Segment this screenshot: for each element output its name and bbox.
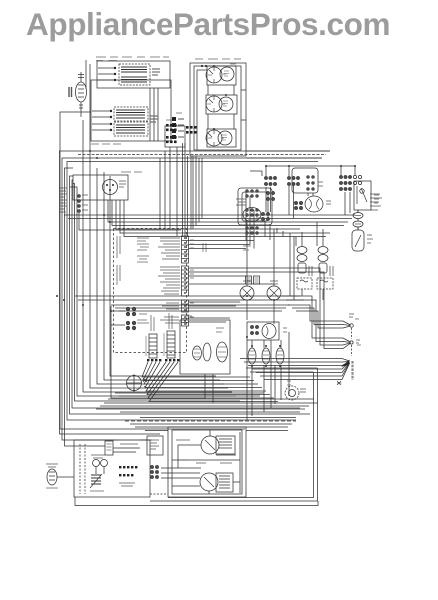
- label left of oval: [69, 87, 72, 97]
- assorted junction dots: [56, 65, 356, 392]
- surface switch box outer: [190, 63, 246, 156]
- dashed element box 2: [114, 107, 148, 121]
- wires top right linking: [246, 151, 355, 176]
- plug header P3: [146, 315, 157, 358]
- oval I: [353, 213, 363, 219]
- wires from terminal strip to right: [189, 191, 301, 322]
- bottom-left inner components: [90, 441, 140, 491]
- bottom switch pair 1: [201, 436, 235, 454]
- door motor box: [73, 175, 128, 200]
- pin rows under plugs: [147, 359, 179, 361]
- surface switch SW2: [206, 95, 237, 114]
- latch connector pair: [250, 325, 258, 334]
- bottom-left oval component: [46, 464, 74, 488]
- RANGE label vertical: [351, 361, 353, 380]
- label P-display vertical: [203, 243, 206, 252]
- cooling fan motor circle-cross: [127, 376, 148, 391]
- conv fan circle: [285, 386, 306, 400]
- dashed element box 3: [114, 122, 148, 136]
- bottom wires: [161, 430, 240, 494]
- header logo text: [26, 6, 390, 43]
- bottom bus horizontals: [75, 393, 318, 506]
- heater bars 1: [121, 67, 147, 72]
- bigger oval comp 3: [217, 342, 228, 362]
- wire left bus bundle with corner tops: [60, 112, 311, 446]
- wire fan 2: [282, 268, 360, 349]
- dashed link line 2: [351, 345, 353, 356]
- label right: [150, 116, 158, 122]
- bake element group box U2: [91, 80, 171, 141]
- fanned wires from plugs to bus: [142, 362, 278, 402]
- connector grid F: [339, 175, 351, 190]
- plug header P4: [164, 313, 175, 358]
- connector column below door motor: [77, 194, 181, 230]
- wire horizontal mid bundle crossing page with corner drops: [64, 200, 355, 237]
- wire-name labels left of strips: [158, 238, 180, 323]
- relay nested boxes: [238, 188, 272, 225]
- wire bundle lower mid: [75, 296, 304, 311]
- wire fan 1 to node N: [288, 305, 354, 328]
- control board dashed box: [114, 229, 187, 353]
- surface switch SW1: [206, 66, 236, 85]
- connector grid B: [287, 176, 299, 185]
- left-mid connector clusters x125-140 y306-333 wires: [111, 311, 125, 325]
- asterisk mark: [337, 381, 342, 385]
- rounded relay box C: [292, 168, 323, 193]
- top-right wiring: connector grid A: [264, 176, 276, 185]
- sensor stack A: [297, 247, 312, 290]
- box around left-middle: [111, 306, 205, 398]
- small connector text block on left bus: [60, 188, 67, 212]
- wire vert top-left: [85, 60, 87, 89]
- terminal strip column TB1: [182, 236, 189, 263]
- connector grid A2 below connA: [266, 191, 274, 200]
- dashed link line: [351, 328, 353, 339]
- hatched oval comp row (thermostats): [248, 345, 284, 367]
- oval J: [353, 221, 363, 227]
- connector P7 column top-left: [165, 117, 185, 147]
- broil element group box U1: [97, 61, 170, 88]
- dashed element box 1: [119, 64, 150, 85]
- inner dashed vertical: [80, 444, 85, 494]
- sensor stack B: [317, 247, 333, 290]
- small text marks scattered (scan text): [91, 57, 361, 385]
- lamp L2: [267, 281, 281, 300]
- lamp L1: [240, 281, 254, 300]
- connector cluster left of switch box: [166, 124, 177, 143]
- transformer T1 oval heater element top-left: [76, 72, 87, 117]
- cb box drop wires: [205, 374, 213, 403]
- right nested verticals to bottom box: [246, 368, 318, 403]
- bottom-left outer box: [74, 440, 150, 497]
- center-bottom component box: [180, 320, 230, 374]
- bottom-middle outer box: [168, 427, 246, 497]
- relay cluster K2: [246, 209, 259, 235]
- door lock switch K: [352, 230, 373, 251]
- label right: [152, 69, 160, 75]
- wire inner left vertical bundle: [83, 64, 232, 392]
- board left tiny text: [137, 238, 149, 323]
- wire bundle from top-left group going right: [78, 151, 330, 162]
- connector cluster 2: [186, 126, 197, 134]
- bottom connector cluster: [150, 465, 158, 478]
- stair-step feeders: [290, 233, 294, 300]
- small oval comp 2: [203, 343, 211, 361]
- wire fan 3 RANGE arrow: [240, 359, 350, 380]
- terminal strip column TB4: [182, 315, 189, 326]
- terminal strip column TB2: [182, 266, 189, 296]
- latch motor cluster box: [247, 322, 287, 340]
- vertical feeders into control board: [150, 88, 202, 236]
- bottom label box: [147, 436, 163, 455]
- bottom-left right cluster: [118, 440, 140, 486]
- small oval comp 1: [193, 346, 202, 360]
- terminal dots: [110, 110, 112, 112]
- terminal strip column TB3: [182, 300, 189, 312]
- bottom switch pair 2: [200, 473, 233, 492]
- terminal dots: [114, 67, 116, 69]
- vertical drops middle-right: [247, 186, 358, 420]
- component H tall box: [354, 181, 379, 210]
- relay cluster K1 right of board: [236, 190, 259, 206]
- switch interconnect wires: [197, 70, 246, 150]
- connector column E: [261, 212, 269, 220]
- fuse hatch pair: [246, 276, 260, 284]
- surface switch SW3: [206, 129, 236, 147]
- connector grid G + labels: [353, 175, 382, 210]
- fan motor oval D: [294, 196, 331, 212]
- left-middle connector clusters: [126, 307, 136, 316]
